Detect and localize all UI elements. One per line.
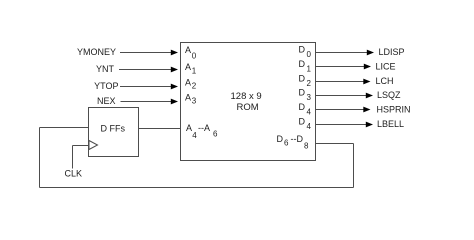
svg-text:LICE: LICE <box>376 62 396 72</box>
wire D4 to LBELL <box>316 122 374 128</box>
svg-text:1: 1 <box>192 67 197 76</box>
svg-text:LSQZ: LSQZ <box>377 90 401 100</box>
ROM value label "128 x 9 ROM" <box>231 91 262 113</box>
wire D4 to HSPRIN <box>316 107 371 113</box>
svg-text:LCH: LCH <box>376 76 394 86</box>
pin A4--A6 <box>186 123 218 140</box>
svg-text:YNT: YNT <box>96 64 115 74</box>
pin D1 <box>299 59 312 74</box>
svg-text:YTOP: YTOP <box>94 81 118 91</box>
svg-text:D: D <box>299 45 306 55</box>
ROM U1 body (128 x 9 ROM) <box>181 43 316 161</box>
svg-text:3: 3 <box>307 93 312 102</box>
svg-text:YMONEY: YMONEY <box>77 47 116 57</box>
pin A0 <box>185 45 197 61</box>
svg-text:D: D <box>299 88 306 98</box>
pin A1 <box>185 62 197 76</box>
wire feedback bus bottom segment <box>40 187 354 189</box>
pin D6--D8 <box>277 134 310 151</box>
wire NEX to A3 <box>121 99 179 105</box>
svg-text:A: A <box>186 123 192 133</box>
svg-text:CLK: CLK <box>65 169 83 179</box>
wire feedback bus into D FFs data input <box>40 127 89 129</box>
pin A3 <box>185 93 197 106</box>
svg-text:4: 4 <box>192 131 197 140</box>
svg-text:A: A <box>185 45 191 55</box>
wire YNT to A1 <box>119 67 178 73</box>
svg-text:0: 0 <box>307 50 312 59</box>
svg-text:2: 2 <box>307 79 312 88</box>
wire D6--D8 out of ROM (top segment of feedback bus) <box>316 143 354 145</box>
wire CLK into clock input of D FFs <box>73 145 89 147</box>
svg-text:0: 0 <box>192 52 197 61</box>
svg-text:6: 6 <box>213 130 218 139</box>
wire feedback bus left vertical segment <box>39 128 41 188</box>
wire YMONEY to A0 <box>120 50 178 56</box>
svg-text:ROM: ROM <box>237 102 259 113</box>
pin D4 <box>299 102 312 117</box>
svg-text:D: D <box>299 74 306 84</box>
svg-text:2: 2 <box>192 82 197 91</box>
svg-text:LDISP: LDISP <box>379 47 405 57</box>
pin D0 <box>299 45 312 60</box>
wire D2 to LCH <box>316 79 371 85</box>
svg-text:8: 8 <box>304 142 309 151</box>
wire CLK vertical segment <box>72 146 74 169</box>
svg-text:A: A <box>185 93 191 103</box>
pin D3 <box>299 88 312 103</box>
svg-text:D: D <box>299 117 306 127</box>
pin A2 <box>185 78 197 91</box>
wire D1 to LICE <box>316 64 372 70</box>
wire D FFs output to A4--A6 <box>139 128 181 130</box>
svg-text:NEX: NEX <box>97 96 116 106</box>
svg-text:LBELL: LBELL <box>377 119 404 129</box>
svg-text:128 x 9: 128 x 9 <box>231 91 262 102</box>
svg-text:D: D <box>299 59 306 69</box>
svg-text:1: 1 <box>307 65 312 74</box>
D flip-flops block U2 body <box>89 108 139 157</box>
svg-text:D FFs: D FFs <box>101 124 126 134</box>
wire feedback bus right vertical segment <box>353 144 355 188</box>
svg-text:A: A <box>185 78 191 88</box>
wire D3 to LSQZ <box>316 93 374 99</box>
svg-text:D: D <box>299 102 306 112</box>
wire YTOP to A2 <box>120 84 178 90</box>
svg-text:D: D <box>277 134 284 144</box>
svg-text:4: 4 <box>307 122 312 131</box>
svg-text:4: 4 <box>307 108 312 117</box>
clock input triangle on D FFs <box>89 141 98 150</box>
pin D4 (second) <box>299 117 312 132</box>
wire D0 to LDISP <box>316 50 375 56</box>
svg-text:--D: --D <box>291 134 304 144</box>
svg-text:HSPRIN: HSPRIN <box>377 105 411 115</box>
svg-text:6: 6 <box>284 139 289 148</box>
pin D2 <box>299 74 312 89</box>
svg-text:3: 3 <box>192 97 197 106</box>
svg-text:A: A <box>185 62 191 72</box>
svg-text:--A: --A <box>198 123 210 133</box>
